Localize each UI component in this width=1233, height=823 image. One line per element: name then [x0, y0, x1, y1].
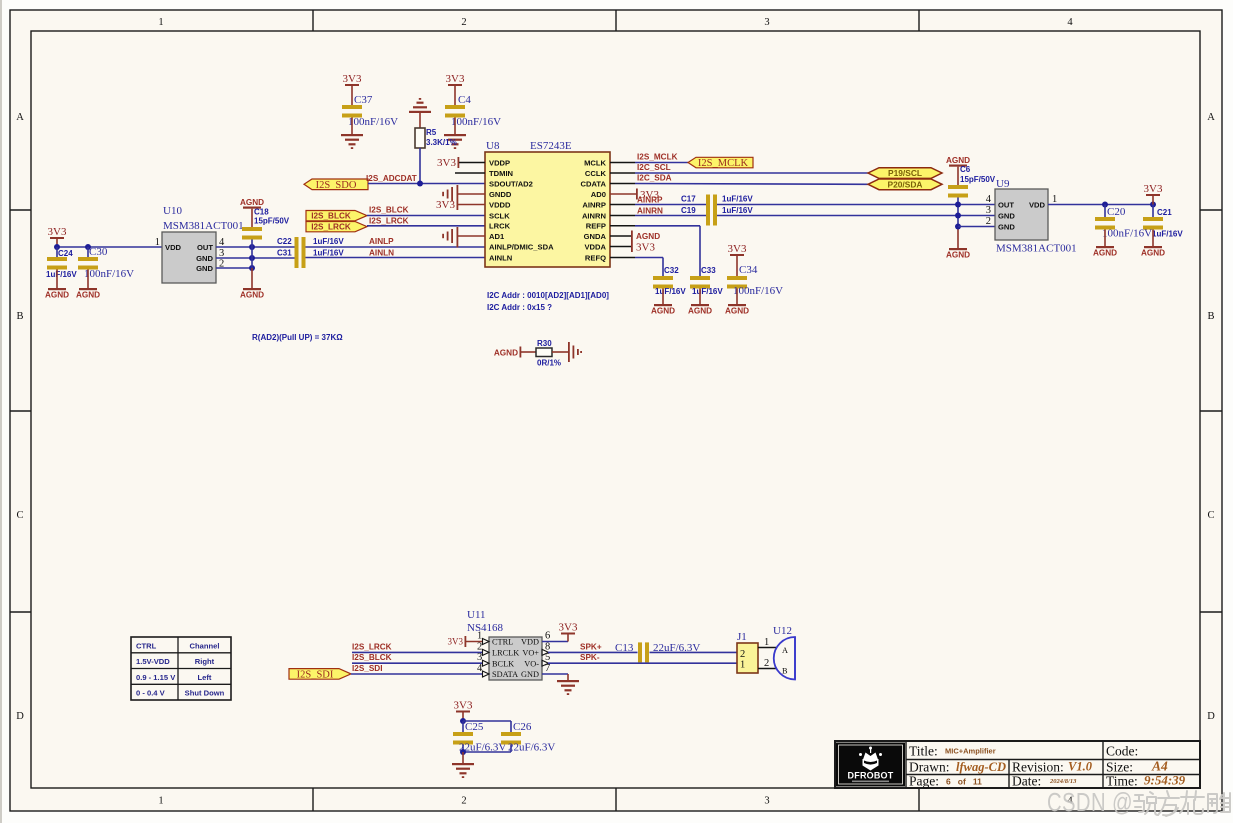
svg-text:3V3: 3V3 [728, 243, 747, 255]
ground AGND (below C18) [240, 288, 264, 300]
svg-text:GNDD: GNDD [489, 190, 512, 199]
ground (below C37) [341, 134, 363, 149]
svg-text:3V3: 3V3 [636, 242, 655, 254]
wire R5 to I2S_ADCDAT net [419, 148, 421, 184]
svg-text:2: 2 [740, 649, 745, 660]
svg-text:Size:: Size: [1106, 760, 1133, 775]
wire I2C_SDA (U8.CDATA to P20/SDA) [610, 174, 868, 185]
svg-text:LRCK: LRCK [489, 222, 511, 231]
svg-text:3V3: 3V3 [454, 700, 473, 712]
svg-text:C33: C33 [701, 266, 716, 275]
svg-text:3V3: 3V3 [559, 622, 578, 634]
svg-text:SPK+: SPK+ [580, 642, 602, 651]
svg-text:MCLK: MCLK [584, 158, 606, 167]
wire C26 bottom to C25 bottom [463, 751, 511, 753]
svg-text:AGND: AGND [1141, 249, 1165, 258]
power 3V3 (C21) [1144, 183, 1163, 205]
svg-text:B: B [16, 311, 23, 322]
svg-text:22uF/6.3V: 22uF/6.3V [508, 742, 555, 754]
svg-text:AGND: AGND [240, 198, 264, 207]
node U9 junction AINRN [955, 213, 961, 219]
ground (below C25) [452, 752, 474, 778]
svg-text:AGND: AGND [494, 349, 518, 358]
net flag P19/SCL [868, 168, 942, 179]
svg-text:D: D [1207, 711, 1215, 722]
ground (above R5) [409, 98, 431, 128]
capacitor C34 100nF/16V [727, 264, 783, 304]
svg-text:I2S_LRCK: I2S_LRCK [369, 216, 409, 225]
wire C25 top to C26 top [463, 721, 511, 732]
svg-text:1uF/16V: 1uF/16V [722, 195, 753, 204]
power 3V3 tick (U8.VDDD) [436, 199, 485, 211]
power 3V3 (C25) [454, 700, 473, 722]
svg-text:1uF/16V: 1uF/16V [655, 287, 686, 296]
svg-text:A: A [1207, 112, 1215, 123]
svg-text:U11: U11 [467, 609, 486, 621]
svg-text:CTRL: CTRL [492, 638, 513, 647]
svg-text:C25: C25 [465, 721, 484, 733]
svg-text:J1: J1 [737, 631, 747, 643]
wire J1 to U12.B (pin 2) [758, 658, 776, 669]
svg-text:ES7243E: ES7243E [530, 140, 572, 152]
svg-text:I2C_SDA: I2C_SDA [637, 174, 672, 183]
capacitor C18 15pF/50V [242, 208, 290, 289]
svg-text:Right: Right [195, 657, 215, 666]
svg-text:15pF/50V: 15pF/50V [960, 175, 996, 184]
capacitor C4 100nF/16V [445, 94, 501, 134]
svg-text:3V3: 3V3 [448, 637, 464, 647]
svg-text:I2C_SCL: I2C_SCL [637, 163, 671, 172]
ground AGND (below C6 column) [946, 248, 970, 260]
svg-text:V1.0: V1.0 [1068, 760, 1093, 774]
svg-text:AINLN: AINLN [489, 253, 512, 262]
svg-text:CDATA: CDATA [581, 179, 607, 188]
svg-text:AINRN: AINRN [637, 206, 663, 215]
svg-text:GNDA: GNDA [584, 232, 607, 241]
capacitor C37 100nF/16V [342, 94, 398, 134]
svg-text:AGND: AGND [946, 251, 970, 260]
watermark CSDN [1047, 788, 1230, 817]
svg-text:GND: GND [998, 212, 1015, 221]
svg-text:C26: C26 [513, 721, 532, 733]
node U9 junction AINRP [955, 202, 961, 208]
net flag I2S_BLCK (points right) [306, 211, 367, 221]
svg-text:Time:: Time: [1106, 774, 1138, 789]
svg-text:I2S_ADCDAT: I2S_ADCDAT [366, 174, 417, 183]
svg-text:DFROBOT: DFROBOT [848, 771, 894, 781]
ground AGND (above C18) [240, 198, 264, 209]
svg-text:I2S_SDI: I2S_SDI [297, 670, 334, 681]
svg-text:C13: C13 [615, 642, 634, 654]
svg-text:3: 3 [764, 17, 769, 28]
svg-text:AINLN: AINLN [369, 248, 394, 257]
svg-text:MSM381ACT001: MSM381ACT001 [163, 220, 244, 232]
power 3V3 (C34) [728, 243, 747, 276]
svg-text:AGND: AGND [688, 307, 712, 316]
capacitor C20 100nF/16V [1095, 205, 1152, 247]
svg-text:R(AD2)(Pull UP) = 37KΩ: R(AD2)(Pull UP) = 37KΩ [252, 333, 343, 342]
svg-text:MIC+Amplifier: MIC+Amplifier [945, 747, 996, 756]
power 3V3 (U11.VDD) [542, 622, 578, 642]
svg-text:100nF/16V: 100nF/16V [348, 116, 398, 128]
svg-text:Code:: Code: [1106, 744, 1138, 759]
net flag I2S_SDI (points right) [289, 669, 351, 681]
microphone U10 MSM381ACT001 [155, 205, 244, 283]
svg-text:AINRP: AINRP [582, 200, 606, 209]
ground AGND (below C24) [45, 288, 69, 300]
ground (R30 right, rotated) [568, 342, 582, 362]
svg-text:C4: C4 [458, 94, 471, 106]
svg-text:D: D [16, 711, 24, 722]
svg-text:Title:: Title: [909, 744, 938, 759]
capacitor C17 1uF/16V (series, AINRP) [681, 195, 753, 215]
wire AINLN to U8 [306, 248, 486, 257]
svg-text:I2S_BLCK: I2S_BLCK [311, 212, 351, 221]
power 3V3 (U10 VDD rail) [48, 226, 67, 247]
microphone U9 MSM381ACT001 [986, 178, 1077, 255]
svg-text:1: 1 [764, 637, 769, 648]
net flag I2S_SDO (points left) [304, 179, 368, 191]
svg-text:OUT: OUT [998, 201, 1014, 210]
power 3V3 (C37) [343, 73, 362, 105]
capacitor C25 22uF/6.3V [453, 721, 506, 754]
ground AGND (below C33) [688, 304, 712, 316]
svg-text:C20: C20 [1107, 206, 1126, 218]
svg-text:I2S_BLCK: I2S_BLCK [352, 653, 392, 662]
svg-text:I2C Addr : 0x15 ?: I2C Addr : 0x15 ? [487, 303, 552, 312]
svg-text:1: 1 [740, 660, 745, 671]
DFROBOT logo [836, 743, 905, 787]
svg-text:2: 2 [461, 17, 466, 28]
wire U9.VDD to 3V3 rail [1048, 204, 1153, 206]
svg-text:I2S_SDI: I2S_SDI [352, 664, 383, 673]
ground (U8.GNDD) [442, 185, 485, 210]
svg-text:I2S_MCLK: I2S_MCLK [698, 158, 749, 169]
svg-text:U12: U12 [773, 625, 792, 637]
capacitor C13 22uF/6.3V (series) [615, 642, 700, 662]
svg-text:OUT: OUT [197, 243, 213, 252]
svg-text:TDMIN: TDMIN [489, 169, 513, 178]
svg-text:U10: U10 [163, 205, 182, 217]
svg-text:AGND: AGND [240, 291, 264, 300]
svg-text:I2S_BLCK: I2S_BLCK [369, 206, 409, 215]
node junction C25 top [460, 718, 466, 724]
svg-text:VO-: VO- [524, 659, 539, 668]
svg-text:0R/1%: 0R/1% [537, 359, 561, 368]
svg-text:AGND: AGND [76, 291, 100, 300]
svg-text:AINLP: AINLP [369, 237, 394, 246]
svg-text:3V3: 3V3 [48, 226, 67, 238]
capacitor C21 1uF/16V [1143, 205, 1183, 247]
svg-text:AD1: AD1 [489, 232, 505, 241]
svg-text:VDDP: VDDP [489, 158, 510, 167]
svg-text:1: 1 [158, 796, 163, 807]
net flag P20/SDA [868, 179, 942, 190]
note pull-up value [252, 333, 343, 342]
svg-text:VDD: VDD [1029, 201, 1046, 210]
power 3V3 (C4) [446, 73, 465, 105]
svg-text:C18: C18 [254, 208, 269, 217]
node C18 junction on GND2 line [249, 265, 255, 271]
svg-text:AINRP: AINRP [637, 195, 663, 204]
node VDD rail junction at C30 [85, 244, 91, 250]
svg-text:MSM381ACT001: MSM381ACT001 [996, 243, 1077, 255]
svg-text:C30: C30 [89, 246, 108, 258]
amplifier U11 NS4168 [467, 609, 550, 680]
ground AGND (above C6) [946, 156, 970, 167]
ground AGND (below C34) [725, 304, 749, 316]
svg-text:AD0: AD0 [591, 190, 606, 199]
svg-text:C6: C6 [960, 165, 971, 174]
svg-text:C37: C37 [354, 94, 373, 106]
svg-text:3V3: 3V3 [436, 199, 455, 211]
title block [835, 741, 1200, 789]
wire I2S_LRCK to U8.LRCK [367, 216, 485, 226]
ground AGND (below C20) [1093, 246, 1117, 258]
node junction C25 bottom [460, 749, 466, 755]
ground (U8.AD1) [442, 227, 485, 248]
svg-text:AGND: AGND [725, 307, 749, 316]
capacitor C26 22uF/6.3V [501, 721, 555, 754]
wire U10.GND3 to C31 [216, 257, 295, 259]
svg-text:C34: C34 [739, 264, 758, 276]
svg-text:1uF/16V: 1uF/16V [692, 287, 723, 296]
svg-text:U8: U8 [486, 140, 500, 152]
ground AGND tick (R30 left) [494, 347, 536, 358]
svg-text:VDDA: VDDA [584, 242, 606, 251]
svg-text:100nF/16V: 100nF/16V [84, 268, 134, 280]
svg-text:Revision:: Revision: [1012, 760, 1064, 775]
node C18 junction on OUT line [249, 244, 255, 250]
ground AGND tick (U8.GNDA) + 3V3 (U8.VDDA) [610, 231, 660, 254]
svg-text:REFQ: REFQ [585, 253, 606, 262]
node VDD rail junction at C24 [54, 244, 60, 250]
svg-text:3: 3 [986, 205, 991, 216]
wire I2S_MCLK (U8.MCLK to flag) [610, 153, 688, 163]
wire I2S_ADCDAT (flag to U8.SDOUT/AD2) [366, 174, 485, 184]
node U9 junction GND2 [955, 224, 961, 230]
capacitor C31 1uF/16V (series, AINLN) [277, 248, 344, 268]
svg-text:C19: C19 [681, 206, 696, 215]
wire U9.GND2 stub [958, 226, 995, 228]
svg-text:3V3: 3V3 [437, 157, 456, 169]
svg-text:1uF/16V: 1uF/16V [722, 206, 753, 215]
wire AINRP to U9 junction [717, 204, 995, 206]
svg-text:1.5V-VDD: 1.5V-VDD [136, 657, 170, 666]
wire U10.OUT to C22 (mic left signal) [216, 246, 295, 248]
svg-text:15pF/50V: 15pF/50V [254, 217, 290, 226]
wire AINRN (U8 to C19) [610, 206, 706, 215]
svg-text:Drawn:: Drawn: [909, 760, 950, 775]
svg-text:GND: GND [196, 264, 213, 273]
svg-text:3: 3 [477, 652, 482, 663]
wire I2S_SDI to U11.SDATA [351, 664, 483, 674]
svg-text:4: 4 [986, 194, 992, 205]
svg-text:Page:: Page: [909, 774, 939, 789]
svg-text:VDD: VDD [165, 243, 182, 252]
wire AINRN to U9 junction [717, 215, 995, 217]
svg-text:0 - 0.4 V: 0 - 0.4 V [136, 689, 166, 698]
svg-text:REFP: REFP [586, 222, 606, 231]
svg-text:3: 3 [764, 796, 769, 807]
svg-text:1: 1 [155, 237, 160, 248]
ground AGND (below C32) [651, 304, 675, 316]
svg-text:AINLP/DMIC_SDA: AINLP/DMIC_SDA [489, 242, 554, 251]
svg-text:1uF/16V: 1uF/16V [1152, 230, 1183, 239]
table CTRL/Channel [131, 637, 231, 700]
svg-text:100nF/16V: 100nF/16V [451, 116, 501, 128]
svg-text:I2S_LRCK: I2S_LRCK [311, 223, 351, 232]
svg-text:100nF/16V: 100nF/16V [733, 285, 783, 297]
svg-text:SCLK: SCLK [489, 211, 510, 220]
svg-text:B: B [782, 667, 788, 676]
svg-text:Left: Left [198, 673, 212, 682]
svg-text:AGND: AGND [45, 291, 69, 300]
svg-text:1uF/16V: 1uF/16V [313, 248, 344, 257]
svg-text:AGND: AGND [1093, 249, 1117, 258]
svg-text:Shut Down: Shut Down [185, 689, 225, 698]
svg-text:CTRL: CTRL [136, 641, 157, 650]
svg-text:P20/SDA: P20/SDA [888, 180, 923, 190]
wire SPK+ C13 to J1 pin2 [650, 651, 738, 653]
svg-text:6: 6 [545, 631, 550, 642]
svg-text:U9: U9 [996, 178, 1010, 190]
svg-text:P19/SCL: P19/SCL [888, 168, 922, 178]
net flag I2S_MCLK (points left) [688, 157, 753, 169]
svg-text:2: 2 [764, 658, 769, 669]
svg-text:0.9 - 1.15 V: 0.9 - 1.15 V [136, 673, 176, 682]
svg-text:A: A [16, 112, 24, 123]
wire I2S_BLCK to U11.BCLK [352, 653, 483, 663]
svg-text:CSDN @: CSDN @ [1047, 788, 1133, 817]
node junction C20 [1102, 202, 1108, 208]
speaker U12 [773, 625, 795, 680]
capacitor C24 1uF/16V [46, 247, 77, 288]
svg-text:Date:: Date: [1012, 774, 1041, 789]
capacitor C33 1uF/16V [690, 266, 723, 304]
svg-text:C24: C24 [58, 249, 73, 258]
svg-text:GND: GND [521, 670, 539, 679]
svg-text:2: 2 [986, 216, 991, 227]
wire SPK- (U11.VO- to J1 pin1) [548, 653, 737, 663]
wire SPK+ (U11.VO+ to C13) [548, 642, 638, 652]
power 3V3 tick (U11.CTRL) [448, 636, 484, 647]
resistor R5 3.3K/1% [415, 128, 457, 148]
ground AGND (below C21) [1141, 246, 1165, 258]
note I2C address [487, 291, 609, 312]
svg-text:C17: C17 [681, 195, 696, 204]
svg-text:2: 2 [461, 796, 466, 807]
node junction C21 [1150, 202, 1156, 208]
svg-text:3V3: 3V3 [343, 73, 362, 85]
wire I2S_BLCK to U8.SCLK [367, 206, 485, 216]
svg-text:I2S_SDO: I2S_SDO [316, 180, 357, 191]
svg-text:3V3: 3V3 [1144, 183, 1163, 195]
svg-text:SPK-: SPK- [580, 653, 600, 662]
power 3V3 tick (U8.VDDP) [437, 157, 485, 169]
svg-text:C21: C21 [1157, 208, 1172, 217]
svg-text:NS4168: NS4168 [467, 622, 504, 634]
svg-text:6 of 11: 6 of 11 [946, 777, 982, 787]
svg-text:I2S_LRCK: I2S_LRCK [352, 642, 392, 651]
svg-text:1uF/16V: 1uF/16V [313, 237, 344, 246]
wire U8.TDMIN stub [455, 172, 485, 174]
power 3V3 tick (U8.AD0) [610, 189, 659, 202]
wire I2C_SCL (U8.CCLK to P19/SCL) [610, 163, 868, 173]
svg-text:AINRN: AINRN [582, 211, 606, 220]
wire REFP (U8 to C33) [610, 226, 700, 276]
svg-text:AGND: AGND [946, 156, 970, 165]
connector J1 [737, 631, 758, 673]
wire 3V3 rail to U10.VDD [57, 246, 162, 248]
svg-text:Channel: Channel [190, 641, 220, 650]
svg-text:C: C [1207, 510, 1214, 521]
svg-text:I2C Addr : 0010[AD2][AD1][AD0]: I2C Addr : 0010[AD2][AD1][AD0] [487, 291, 609, 300]
svg-text:C22: C22 [277, 237, 292, 246]
svg-text:SDOUT/AD2: SDOUT/AD2 [489, 179, 533, 188]
svg-text:1: 1 [1052, 194, 1057, 205]
svg-text:BCLK: BCLK [492, 659, 514, 668]
svg-text:A: A [782, 646, 788, 655]
svg-text:GND: GND [998, 223, 1015, 232]
svg-text:R30: R30 [537, 339, 552, 348]
capacitor C32 1uF/16V [653, 266, 686, 304]
op-amp / ADC chip U8 ES7243E [485, 140, 610, 267]
svg-text:C32: C32 [664, 266, 679, 275]
svg-text:3V3: 3V3 [446, 73, 465, 85]
svg-text:lfwag-CD: lfwag-CD [956, 760, 1006, 774]
svg-text:2024/8/13: 2024/8/13 [1049, 778, 1077, 785]
svg-text:VDD: VDD [521, 638, 539, 647]
wire J1 to U12.A (pin 1) [758, 637, 776, 648]
ground AGND (below C30) [76, 288, 100, 300]
svg-text:1uF/16V: 1uF/16V [46, 270, 77, 279]
svg-text:VO+: VO+ [522, 649, 539, 658]
svg-text:AGND: AGND [651, 307, 675, 316]
svg-text:9:54:39: 9:54:39 [1144, 773, 1186, 788]
node junction R5/I2S_ADCDAT [417, 181, 423, 187]
svg-text:VDDD: VDDD [489, 200, 511, 209]
net flag I2S_LRCK (points right) [306, 222, 367, 232]
svg-text:1: 1 [158, 17, 163, 28]
wire U10.GND2 to C18 junction [216, 267, 252, 269]
wire AINLP to U8 [306, 237, 486, 247]
svg-text:LRCLK: LRCLK [492, 649, 519, 658]
svg-text:C: C [16, 510, 23, 521]
wire AINRP (U8 to C17) [610, 195, 706, 204]
wire I2S_LRCK to U11.LRCLK [352, 642, 483, 652]
svg-text:B: B [1207, 311, 1214, 322]
svg-text:SDATA: SDATA [492, 670, 518, 679]
svg-text:GND: GND [196, 254, 213, 263]
ground (U11.GND) [542, 674, 579, 695]
capacitor C22 1uF/16V (series, AINLP) [277, 237, 344, 257]
capacitor C19 1uF/16V (series, AINRN) [681, 206, 753, 226]
capacitor C6 15pF/50V [948, 165, 996, 248]
svg-text:CCLK: CCLK [585, 169, 607, 178]
wire REFQ (U8 to C32) [610, 258, 663, 277]
svg-text:AGND: AGND [636, 232, 660, 241]
svg-text:4: 4 [1067, 17, 1073, 28]
resistor R30 0R/1% [536, 339, 568, 368]
svg-text:1: 1 [477, 631, 482, 642]
svg-text:R5: R5 [426, 128, 437, 137]
ground (below C4) [444, 134, 466, 149]
capacitor C30 100nF/16V [78, 246, 134, 288]
svg-text:3.3K/1%: 3.3K/1% [426, 138, 457, 147]
svg-text:2: 2 [477, 641, 482, 652]
svg-text:C31: C31 [277, 248, 292, 257]
